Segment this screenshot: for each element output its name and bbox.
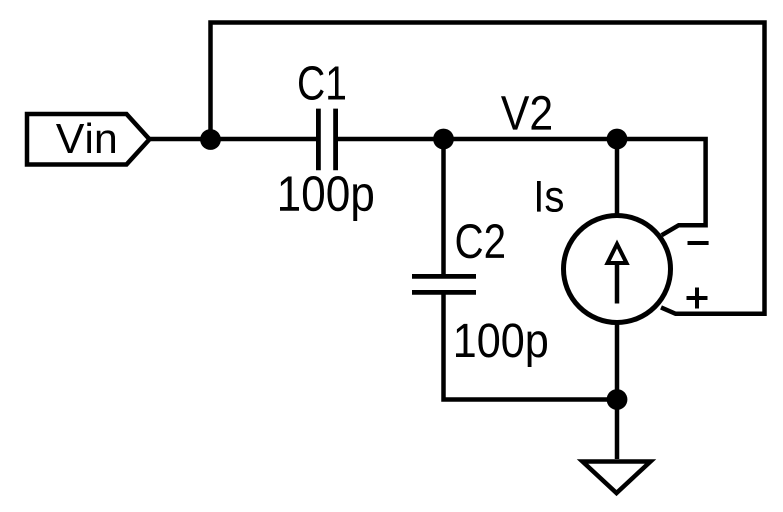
minus sign of Is [688, 241, 709, 245]
label Vin [56, 123, 115, 154]
wire node B down to capacitor C2 top plate [441, 139, 446, 274]
node A junction dot [200, 129, 221, 150]
arrow inside Is [608, 244, 627, 304]
port Vin [27, 114, 150, 165]
plus sign of Is [687, 288, 708, 309]
wire C2 bottom plate down and right to node D [444, 294, 618, 399]
wire C1 right plate to node B, node C, then elbow down to minus terminal of Is [338, 139, 706, 235]
label 100p-C2 [456, 323, 547, 367]
wire feedback loop: node A up, across top, down right side to + terminal [211, 23, 765, 314]
label Is [537, 181, 563, 212]
wire node C down to current source top [615, 139, 620, 216]
label 100p-C1 [280, 176, 373, 221]
ground [583, 462, 651, 494]
wire Vin tip to node A [150, 137, 211, 142]
wire current source bottom to node D and down to ground [615, 322, 620, 459]
node C junction dot [607, 129, 628, 150]
wire node A to capacitor C1 left plate [211, 137, 317, 142]
capacitor C1 [318, 109, 335, 171]
label V2 [501, 96, 551, 130]
node D junction dot [607, 389, 628, 410]
current source Is [564, 216, 671, 323]
capacitor C2 [412, 276, 476, 292]
label C1 [299, 66, 345, 100]
label C2 [457, 224, 504, 258]
node B junction dot [433, 129, 454, 150]
